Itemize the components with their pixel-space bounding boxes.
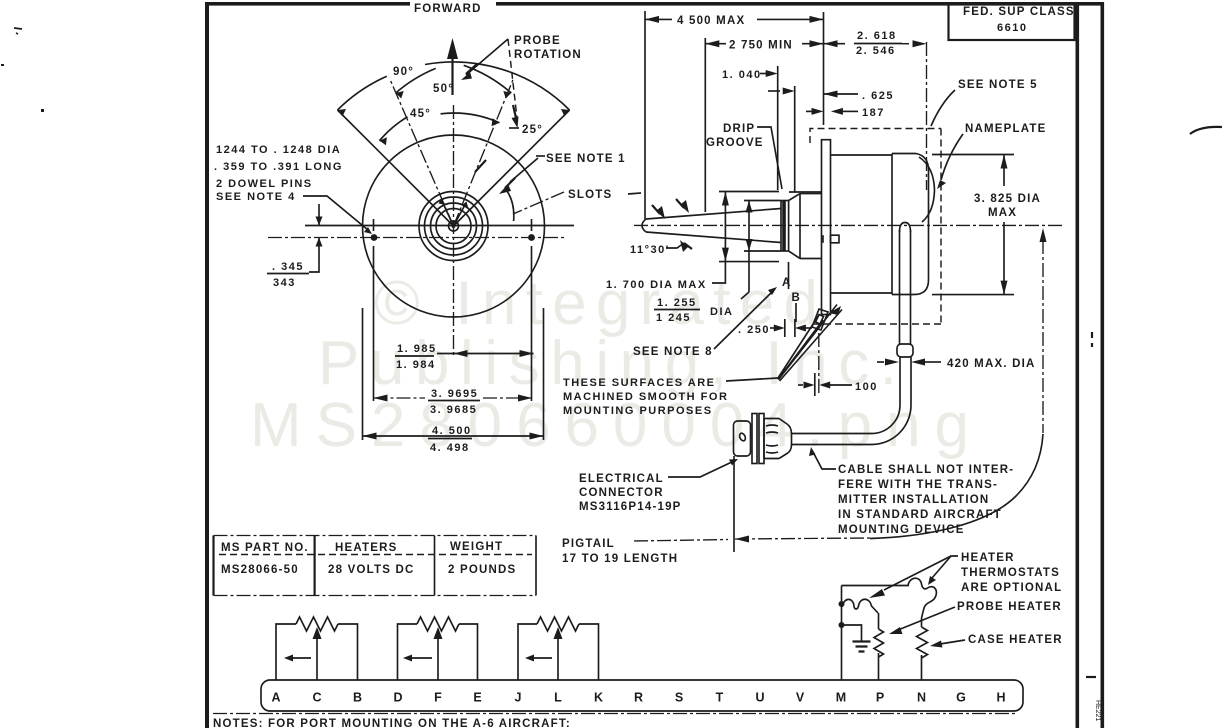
frame right inner xyxy=(1076,2,1080,728)
ext line short xyxy=(794,86,796,192)
pot box 1 outline xyxy=(276,624,358,680)
bell cylinder bottom xyxy=(800,258,822,260)
svg-text:343: 343 xyxy=(273,277,296,289)
lug hole xyxy=(816,315,824,325)
pot box 1 arrow xyxy=(291,657,311,659)
flange outer circle xyxy=(363,135,545,317)
svg-text:MS3116P14-19P: MS3116P14-19P xyxy=(579,501,682,513)
svg-text:MOUNTING PURPOSES: MOUNTING PURPOSES xyxy=(563,405,713,417)
dim .100 xyxy=(798,384,803,386)
svg-text:2 POUNDS: 2 POUNDS xyxy=(448,564,516,576)
probe cone bottom edge xyxy=(646,232,781,243)
ext 1255 bottom xyxy=(744,250,781,252)
svg-text:U: U xyxy=(755,691,764,705)
svg-text:17 TO 19 LENGTH: 17 TO 19 LENGTH xyxy=(562,553,678,565)
body rear section xyxy=(892,154,929,295)
bell face vertical xyxy=(799,194,801,259)
frame left xyxy=(205,2,209,728)
forward arrow shaft xyxy=(451,57,453,95)
leader 11deg30 xyxy=(666,243,684,248)
svg-text:3. 9695: 3. 9695 xyxy=(431,388,478,400)
ext 1255 top xyxy=(744,200,781,202)
svg-text:MOUNTING DEVICE: MOUNTING DEVICE xyxy=(838,524,965,536)
svg-text:4. 500: 4. 500 xyxy=(432,425,472,437)
svg-text:FERE WITH THE TRANS-: FERE WITH THE TRANS- xyxy=(838,479,998,491)
svg-text:MAX: MAX xyxy=(988,207,1017,219)
probe tip xyxy=(642,219,646,232)
dim .345/.343 line lower xyxy=(318,238,320,253)
svg-text:2 750 MIN: 2 750 MIN xyxy=(729,40,793,52)
circuit left wire xyxy=(841,586,843,681)
dim 3.9695 line xyxy=(374,397,426,399)
dim 2.618/2.546 xyxy=(824,40,838,47)
flag A xyxy=(778,315,823,380)
svg-text:2. 546: 2. 546 xyxy=(856,45,896,57)
connector body xyxy=(764,419,779,459)
dim 420 max dia xyxy=(877,361,884,363)
svg-text:FORWARD: FORWARD xyxy=(414,3,482,15)
SIDE VIEW LEFT DIMENSIONS xyxy=(563,192,878,418)
svg-text:SEE NOTE 5: SEE NOTE 5 xyxy=(958,79,1038,91)
these surfaces leader xyxy=(726,378,778,381)
drip groove collar right xyxy=(788,201,790,252)
svg-text:ROTATION: ROTATION xyxy=(514,49,582,61)
ext line flange xyxy=(823,12,825,125)
mounting lug xyxy=(812,309,828,330)
stray dot xyxy=(1,64,4,66)
ext line circle left xyxy=(362,308,364,440)
arc90 arrow right xyxy=(561,109,570,117)
pot box 3 zigzag xyxy=(537,617,579,631)
connector nose xyxy=(779,419,792,459)
svg-text:28 VOLTS DC: 28 VOLTS DC xyxy=(328,564,414,576)
radial line +23 dashdot xyxy=(454,80,513,226)
svg-text:6610: 6610 xyxy=(997,22,1027,34)
FRONT VIEW DIMENSIONS xyxy=(214,144,544,454)
cable horizontal xyxy=(792,434,872,445)
ext line circle right xyxy=(543,308,545,440)
phantom rect top xyxy=(810,129,941,144)
slot bold wedge xyxy=(505,178,515,188)
arc50 arrow right xyxy=(503,91,511,99)
stray mark top-left xyxy=(14,28,22,34)
svg-text:MS PART NO.: MS PART NO. xyxy=(221,542,309,554)
svg-text:1. 255: 1. 255 xyxy=(657,297,697,309)
horizontal solid line xyxy=(305,225,574,227)
svg-text:4. 498: 4. 498 xyxy=(430,442,470,454)
see note 1 leader xyxy=(510,158,538,182)
svg-text:. 359 TO .391 LONG: . 359 TO .391 LONG xyxy=(214,161,343,173)
ext line dowel right upper xyxy=(531,219,533,231)
cable tube verticals upper xyxy=(900,230,911,345)
pot box 1 wiper xyxy=(316,637,318,680)
svg-text:. 345: . 345 xyxy=(272,261,304,273)
ground bars xyxy=(853,642,871,652)
svg-text:SEE NOTE 8: SEE NOTE 8 xyxy=(633,346,713,358)
fed sup class box xyxy=(949,4,1075,40)
case heater zigzag xyxy=(917,627,928,658)
arc45 arrow left xyxy=(379,137,387,145)
FRONT VIEW xyxy=(268,0,641,355)
connector ext line xyxy=(733,456,735,552)
svg-text:FED. SUP CLASS: FED. SUP CLASS xyxy=(963,6,1075,18)
svg-text:100: 100 xyxy=(855,381,878,393)
phantom rect right xyxy=(940,129,942,325)
svg-text:NAMEPLATE: NAMEPLATE xyxy=(965,123,1047,135)
svg-text:THERMOSTATS: THERMOSTATS xyxy=(961,567,1060,579)
svg-text:G: G xyxy=(956,691,966,705)
svg-text:GROOVE: GROOVE xyxy=(706,137,764,149)
strip outline xyxy=(261,680,1023,711)
pigtail vertical dashdot xyxy=(1042,240,1044,433)
cable note leader xyxy=(813,452,836,469)
dim 1255 line xyxy=(748,201,750,293)
lug bold arrow xyxy=(829,306,841,315)
svg-text:C: C xyxy=(312,691,321,705)
probe rotation bold arrow right xyxy=(513,105,516,118)
dim 4.500 line xyxy=(363,435,544,437)
pot box 3 wiper xyxy=(557,637,559,680)
svg-text:B: B xyxy=(353,691,362,705)
stray dot xyxy=(41,109,44,112)
svg-text:1 245: 1 245 xyxy=(656,312,691,324)
connector body thread lines xyxy=(766,425,778,453)
pot box 2 arrow xyxy=(410,657,432,659)
svg-text:THESE SURFACES ARE: THESE SURFACES ARE xyxy=(563,377,716,389)
body front section xyxy=(831,155,893,293)
A B ext lines xyxy=(788,262,790,289)
dim 3825 line xyxy=(1003,155,1005,295)
connector left cap xyxy=(734,421,751,456)
side centerline xyxy=(634,224,1062,226)
forward text bg xyxy=(410,0,496,14)
ext 1700 top xyxy=(719,191,779,193)
dim 1.985 line xyxy=(437,353,534,355)
svg-text:SEE NOTE 1: SEE NOTE 1 xyxy=(546,153,626,165)
svg-text:ARE OPTIONAL: ARE OPTIONAL xyxy=(961,582,1062,594)
ext line dowel right xyxy=(531,246,533,401)
pot box 1 zigzag xyxy=(296,617,338,631)
vane line left xyxy=(442,201,454,226)
heater leader 1 xyxy=(884,556,958,590)
connector cap mark xyxy=(738,432,746,441)
pot box 2 wiper xyxy=(437,637,439,680)
svg-text:25°: 25° xyxy=(522,124,543,136)
dim .345/.343 line upper xyxy=(318,204,320,226)
svg-text:4 500 MAX: 4 500 MAX xyxy=(677,15,745,27)
svg-text:HEATERS: HEATERS xyxy=(335,542,398,554)
ext 3825 bottom xyxy=(932,294,1014,296)
horizontal dash-dot centerline xyxy=(268,237,565,239)
vane arrow right xyxy=(462,202,469,210)
hub circle r23 xyxy=(431,203,477,249)
dowel pin right xyxy=(528,234,535,241)
watermark xyxy=(250,269,969,460)
POTENTIOMETER BOXES xyxy=(276,617,599,680)
connector rib 1 xyxy=(752,414,757,464)
svg-text:1. 984: 1. 984 xyxy=(396,359,436,371)
slot bold mark 2 xyxy=(475,160,486,172)
drip groove leader xyxy=(757,127,782,189)
svg-text:1. 985: 1. 985 xyxy=(397,343,437,355)
ext line probe tip xyxy=(644,11,646,219)
svg-text:NOTES: FOR PORT MOUNTING ON TH: NOTES: FOR PORT MOUNTING ON THE A-6 AIRC… xyxy=(213,718,571,728)
svg-text:K: K xyxy=(594,691,603,705)
wire P xyxy=(878,613,880,680)
svg-text:3. 825 DIA: 3. 825 DIA xyxy=(974,193,1041,205)
vertical dash-dot centerline xyxy=(453,105,455,355)
pigtail curve xyxy=(870,434,1043,539)
ground wire xyxy=(842,625,862,641)
frame right outer xyxy=(1101,2,1105,728)
svg-text:P: P xyxy=(876,691,884,705)
cone bold wedge 1 xyxy=(652,205,660,214)
hub center dot xyxy=(452,224,456,228)
flag B xyxy=(779,305,843,382)
see note 1 dash xyxy=(536,155,545,157)
svg-text:DIA: DIA xyxy=(710,306,733,318)
svg-text:CABLE SHALL NOT INTER-: CABLE SHALL NOT INTER- xyxy=(838,464,1014,476)
dim .625 xyxy=(824,91,838,98)
svg-text:MACHINED SMOOTH FOR: MACHINED SMOOTH FOR xyxy=(563,391,728,403)
pigtail leader dash xyxy=(634,540,728,542)
see note 4 leader xyxy=(303,196,368,230)
cable verticals lower xyxy=(900,357,911,405)
slot thin arc xyxy=(507,191,514,221)
svg-text:1244 TO . 1248 DIA: 1244 TO . 1248 DIA xyxy=(216,144,341,156)
svg-text:PROBE: PROBE xyxy=(514,35,561,47)
wire N xyxy=(921,618,923,680)
arc 90deg r164 xyxy=(338,62,570,110)
HEATER CIRCUIT xyxy=(839,552,1063,680)
strip bottom dashed xyxy=(213,713,1015,715)
svg-text:. 625: . 625 xyxy=(862,90,894,102)
svg-text:CONNECTOR: CONNECTOR xyxy=(579,487,664,499)
thermostat 2 xyxy=(908,578,936,618)
dim .187 xyxy=(806,110,812,112)
svg-text:DRIP: DRIP xyxy=(723,123,755,135)
svg-text:420 MAX. DIA: 420 MAX. DIA xyxy=(947,358,1036,370)
radial line -45 xyxy=(338,110,454,226)
TABLE xyxy=(214,536,537,596)
collar bottom edge xyxy=(781,250,789,252)
svg-text:90°: 90° xyxy=(393,66,414,78)
arc45 arrow right xyxy=(492,118,500,126)
svg-text:MITTER INSTALLATION: MITTER INSTALLATION xyxy=(838,494,989,506)
probe heater zigzag xyxy=(874,629,884,657)
SIDE VIEW RIGHT DIMENSIONS xyxy=(734,79,1047,552)
probe rotation bold arrow top xyxy=(466,64,477,74)
svg-text:PROBE HEATER: PROBE HEATER xyxy=(957,601,1062,613)
svg-text:WEIGHT: WEIGHT xyxy=(450,541,503,553)
junction dot 2 xyxy=(839,622,845,628)
svg-text:HEATER: HEATER xyxy=(961,552,1015,564)
svg-text:45°: 45° xyxy=(410,108,431,120)
svg-text:V: V xyxy=(796,691,805,705)
SIDE VIEW TOP DIMENSIONS xyxy=(645,11,927,219)
svg-text:IN STANDARD AIRCRAFT: IN STANDARD AIRCRAFT xyxy=(838,509,1002,521)
slots leader xyxy=(513,192,564,214)
hub circle r17 xyxy=(436,209,471,244)
pigtail dim arrow xyxy=(735,536,749,543)
body divider xyxy=(891,154,893,295)
arc50 arrow left xyxy=(396,91,404,99)
probe heater leader xyxy=(898,607,955,630)
drip groove dark band xyxy=(782,201,786,252)
svg-text:HE221: HE221 xyxy=(1094,700,1101,722)
hub center circle xyxy=(449,221,459,231)
svg-text:2. 618: 2. 618 xyxy=(857,30,897,42)
border tick xyxy=(1086,676,1096,678)
pot box 3 outline xyxy=(518,624,599,680)
hub circle r34 xyxy=(419,192,488,261)
heater leader 2 xyxy=(932,556,951,578)
svg-text:3. 9685: 3. 9685 xyxy=(430,404,477,416)
radial line -23 dashdot xyxy=(391,81,454,226)
svg-text:SEE NOTE 4: SEE NOTE 4 xyxy=(216,191,296,203)
svg-text:CASE HEATER: CASE HEATER xyxy=(968,634,1063,646)
see note 8 leader xyxy=(714,291,773,349)
bell cylinder top xyxy=(789,191,822,193)
table divider 2 xyxy=(434,536,436,596)
phantom rect bottom xyxy=(810,323,941,325)
slots tick right xyxy=(628,193,641,194)
stray squiggle right xyxy=(1190,127,1222,134)
circuit top rail xyxy=(842,585,910,587)
svg-text:50°: 50° xyxy=(433,83,454,95)
arc 45deg r113 xyxy=(379,113,499,141)
svg-text:187: 187 xyxy=(862,107,885,119)
vane line right xyxy=(454,203,467,226)
arc 50deg r145 xyxy=(396,65,512,93)
svg-text:D: D xyxy=(393,691,402,705)
junction dot 1 xyxy=(839,601,845,607)
dash before 25 xyxy=(509,127,519,129)
bell bottom diagonal xyxy=(789,251,800,259)
svg-text:N: N xyxy=(917,691,926,705)
thermostat 1 xyxy=(842,599,878,613)
hub circle r29 xyxy=(425,197,483,255)
svg-text:R: R xyxy=(634,691,643,705)
pot box 3 arrow xyxy=(532,657,552,659)
frame top xyxy=(205,2,1104,6)
dowel pin left xyxy=(371,234,378,241)
cable elbow xyxy=(872,405,912,445)
svg-text:T: T xyxy=(716,691,724,705)
dowel pin side xyxy=(831,235,840,243)
svg-text:H: H xyxy=(996,691,1005,705)
electrical leader xyxy=(668,461,734,477)
flange plate xyxy=(822,140,831,315)
probe cone top edge xyxy=(646,209,781,220)
ext 1700 bottom xyxy=(719,261,779,263)
pot box 2 zigzag xyxy=(417,617,459,631)
svg-text:L: L xyxy=(554,691,562,705)
svg-text:M: M xyxy=(836,691,846,705)
drip groove collar left xyxy=(780,201,782,252)
probe rotation leader solid xyxy=(466,39,508,75)
cable joint cap xyxy=(897,344,913,357)
dim 2750min xyxy=(705,43,823,45)
svg-text:2 DOWEL PINS: 2 DOWEL PINS xyxy=(216,178,313,190)
dim short arrow xyxy=(768,90,780,92)
cone bold wedge 2 xyxy=(676,199,684,208)
dim 1700 line xyxy=(724,192,726,262)
dim .345 leader xyxy=(309,252,319,272)
svg-text:. 250: . 250 xyxy=(738,324,770,336)
ELECTRICAL CONNECTOR xyxy=(562,414,1014,566)
ext line 1040 xyxy=(777,66,779,190)
svg-text:11°30': 11°30' xyxy=(630,244,670,256)
pigtail dim dashes xyxy=(735,538,870,539)
ext line 2750 xyxy=(704,38,706,212)
svg-text:ELECTRICAL: ELECTRICAL xyxy=(579,473,664,485)
table outer box xyxy=(214,535,537,537)
table header underline xyxy=(219,554,532,556)
cone bold wedge lower xyxy=(684,243,692,249)
svg-text:S: S xyxy=(675,691,683,705)
dim 4500max xyxy=(645,18,824,20)
case heater leader xyxy=(940,640,965,644)
forward arrowhead xyxy=(447,38,458,59)
vane arrow left xyxy=(439,199,447,205)
collar top edge xyxy=(781,200,789,202)
cable tube top arc xyxy=(900,223,911,233)
ext dashdot 2.618 xyxy=(926,42,928,190)
svg-text:SLOTS: SLOTS xyxy=(568,189,612,201)
probe rotation leader dashed xyxy=(508,39,517,121)
svg-text:A: A xyxy=(271,691,280,705)
connector rib 2 xyxy=(759,414,764,464)
bell cylinder top2 xyxy=(800,193,822,195)
DRIP GROOVE LABEL xyxy=(706,123,782,189)
svg-text:F: F xyxy=(434,691,442,705)
terminal letters xyxy=(271,691,1005,705)
svg-text:PIGTAIL: PIGTAIL xyxy=(562,538,615,550)
svg-text:1. 040: 1. 040 xyxy=(722,69,762,81)
svg-text:MS28066-50: MS28066-50 xyxy=(221,564,299,576)
svg-text:E: E xyxy=(473,691,481,705)
radial line +45 xyxy=(454,110,570,226)
svg-text:B: B xyxy=(792,292,802,304)
SIDE VIEW xyxy=(630,42,1062,445)
ext 3825 top xyxy=(932,154,1014,156)
nameplate curve xyxy=(919,157,935,222)
svg-text:A: A xyxy=(782,277,792,289)
TERMINAL STRIP xyxy=(213,680,1023,728)
svg-text:J: J xyxy=(515,691,522,705)
pot box 2 outline xyxy=(398,624,478,680)
arc90 arrow left xyxy=(338,109,347,117)
svg-text:1. 700 DIA MAX: 1. 700 DIA MAX xyxy=(606,279,707,291)
ext line dowel left xyxy=(373,246,375,401)
bell top diagonal xyxy=(789,194,800,201)
table divider 1 xyxy=(314,536,316,596)
